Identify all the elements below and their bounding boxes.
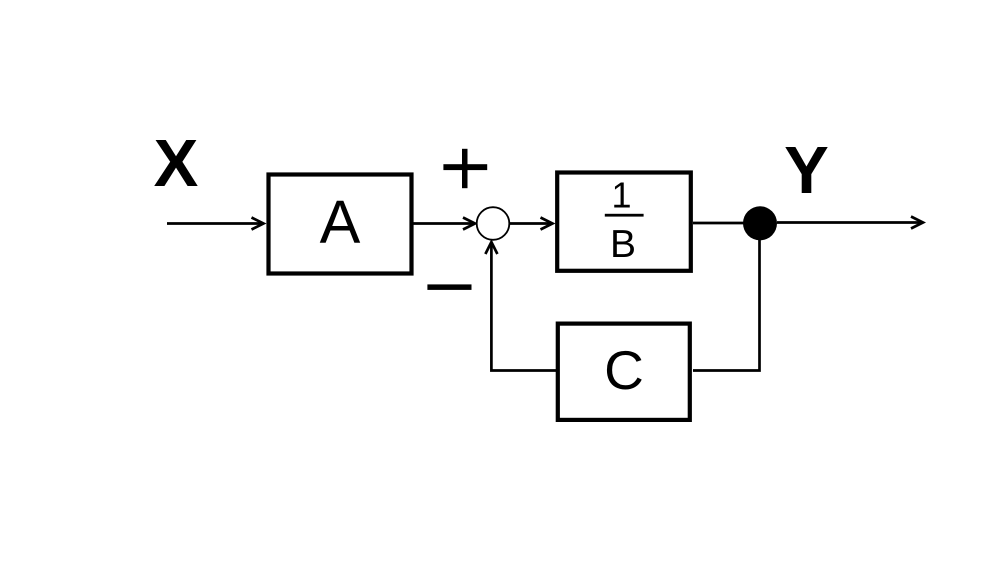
- svg-text:Y: Y: [784, 133, 829, 208]
- wire from block A to summing junction: [414, 218, 476, 230]
- node X label: [154, 126, 199, 201]
- svg-text:1: 1: [611, 175, 631, 216]
- svg-text:X: X: [154, 126, 199, 201]
- node Y label: [784, 133, 829, 208]
- block A: [269, 175, 412, 274]
- minus sign label: [427, 284, 471, 290]
- wire from block 1/B to takeoff node: [693, 222, 760, 225]
- takeoff node dot: [743, 206, 777, 240]
- summing junction circle: [477, 207, 510, 240]
- wire feedback from takeoff node down to block C: [693, 240, 760, 371]
- wire output arrow: [777, 217, 923, 229]
- plus sign label: [443, 149, 487, 188]
- svg-text:B: B: [610, 223, 636, 266]
- block C: [558, 324, 690, 420]
- block 1/B: [557, 173, 691, 271]
- wire from summing junction to block 1/B: [510, 218, 553, 230]
- svg-text:C: C: [604, 339, 644, 401]
- svg-text:A: A: [320, 188, 361, 256]
- wire feedback from block C up into summing junction: [485, 242, 556, 371]
- wire input arrow into block A: [167, 218, 264, 230]
